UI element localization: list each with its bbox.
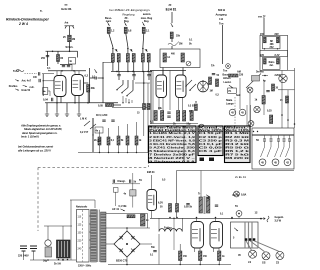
svg-text:dann Spannungsangaben m.: dann Spannungsangaben m.: [22, 131, 58, 135]
ground G2: [55, 112, 59, 116]
wire sw d2: [125, 98, 127, 103]
wire below IF 1: [118, 71, 120, 74]
svg-text:Gegent.: Gegent.: [275, 216, 285, 219]
IF can outer 1: [260, 35, 288, 50]
node R: [128, 102, 129, 103]
pulley xcirc 3: [254, 106, 260, 112]
svg-text:Ant: Ant: [65, 22, 69, 25]
capacitor C10: [147, 75, 150, 76]
svg-text:50p: 50p: [187, 123, 192, 126]
wire L1 down2: [118, 62, 120, 71]
svg-text:Skala abgleichen mit dP HF/ZF,: Skala abgleichen mit dP HF/ZF,: [24, 127, 62, 131]
svg-text:C2 100 p: C2 100 p: [199, 135, 223, 139]
wire v1 pin b: [60, 71, 62, 76]
out tr winding b: [248, 222, 250, 247]
resistor R8: [98, 137, 101, 145]
wire after r7: [114, 104, 122, 106]
svg-text:0,8A: 0,8A: [241, 193, 246, 196]
svg-text:m.E.: m.E.: [30, 87, 35, 89]
switch arm S1b: [122, 88, 128, 93]
out terminal sq 3: [253, 238, 256, 241]
tube V3: [156, 75, 167, 98]
coil L1b: [117, 54, 120, 63]
wire v4 down a: [178, 98, 180, 111]
output choke block: [57, 240, 71, 258]
svg-text:2x EL 41: 2x EL 41: [235, 175, 246, 179]
wire box to tube2: [182, 68, 184, 76]
interstage transformer: [199, 196, 210, 214]
capacitor C17: [113, 180, 114, 183]
capacitor C21: [186, 204, 189, 205]
wire bridge left: [106, 243, 114, 245]
wire x103 vert: [102, 62, 104, 103]
wire input low v: [49, 91, 51, 96]
node IF1a: [112, 48, 114, 50]
svg-text:R7 5 kΩ: R7 5 kΩ: [225, 153, 249, 157]
pulley circle 2: [248, 121, 254, 127]
resistor R14: [209, 77, 212, 85]
node Z: [202, 80, 204, 82]
bottom bus wire: [108, 264, 231, 266]
component box W1: [69, 58, 76, 65]
svg-text:2 EF41 ZF-Verst. 1,9: 2 EF41 ZF-Verst. 1,9: [149, 135, 196, 139]
resistor R33: [272, 84, 275, 91]
wire mr v3: [294, 68, 296, 128]
wire v1 down b: [60, 97, 62, 104]
svg-text:0,05: 0,05: [98, 104, 103, 107]
wire stub down3: [77, 51, 79, 57]
wire h input bus: [46, 50, 78, 52]
svg-text:Drehko: Drehko: [9, 85, 18, 88]
switch arm S3b: [190, 84, 196, 90]
arrow rect: [120, 209, 125, 211]
svg-text:50n: 50n: [151, 247, 156, 249]
wire L1 up: [112, 47, 114, 54]
tap 240: [89, 247, 91, 249]
IF can outer 2: [260, 57, 288, 71]
node Q: [122, 102, 123, 103]
node tone: [132, 192, 134, 194]
wire gnd stub4: [78, 103, 80, 112]
tap 125: [89, 223, 91, 225]
svg-text:250: 250: [41, 57, 46, 60]
wire bridge top: [126, 228, 128, 231]
wire mr down1: [246, 105, 248, 126]
wire v6 top: [196, 218, 198, 222]
wire r10 up: [118, 126, 120, 136]
switch arm S2a: [84, 121, 90, 126]
svg-text:4 EL41 Endröhre 5,8: 4 EL41 Endröhre 5,8: [149, 142, 195, 146]
svg-text:1M: 1M: [210, 91, 213, 93]
wire mr v1: [281, 83, 283, 128]
node V: [118, 152, 119, 153]
wire r9 dn: [108, 145, 110, 153]
out terminal sq 1: [245, 238, 248, 241]
node can1 a: [264, 48, 265, 49]
squiggle row1: [16, 70, 24, 72]
wire r11 dn: [127, 145, 129, 153]
tube V2 (ECH81 hexode): [72, 75, 84, 96]
connector jack J1 pin: [227, 65, 229, 67]
wire left low h: [44, 225, 72, 227]
coil L3a: [141, 54, 144, 63]
switch arm S2b: [90, 124, 96, 129]
wire v4 top: [182, 71, 184, 76]
coil L2b: [132, 54, 135, 63]
svg-text:Höhen: Höhen: [223, 77, 231, 80]
wire rect h2: [106, 227, 150, 229]
shield box U1: [160, 49, 200, 68]
node B: [69, 51, 71, 53]
wire ech col3: [171, 46, 173, 49]
node in1: [43, 80, 44, 81]
test arrow TP6: [206, 195, 210, 197]
svg-text:det.: det.: [269, 64, 273, 67]
wire v6 down a: [194, 248, 196, 252]
node lb c: [196, 217, 198, 219]
wire can2 corner: [288, 70, 295, 72]
node rect a: [126, 227, 128, 229]
dial box: [252, 76, 260, 82]
test arrow TP1: [107, 22, 109, 26]
svg-text:autom.: autom.: [143, 13, 152, 16]
potentiometer P1: [168, 42, 179, 46]
node N: [142, 71, 144, 73]
choke terminal dots: [58, 259, 60, 261]
connector jack J2 pin: [201, 126, 203, 128]
svg-text:Feldsp.: Feldsp.: [164, 226, 173, 229]
wire r28 up: [179, 244, 181, 251]
lower box left: [176, 171, 178, 218]
wire v2 pin b: [78, 71, 80, 75]
resistor R30: [218, 251, 221, 261]
lamp circle 3: [259, 159, 266, 166]
node bus end: [260, 218, 262, 220]
node Y: [92, 134, 93, 135]
squiggle out: [267, 216, 269, 222]
node A: [52, 51, 54, 53]
antenna symbol: [65, 26, 75, 29]
node IF2b: [131, 49, 132, 50]
speaker jack X3: [276, 251, 284, 259]
lamp circle 5: [284, 159, 291, 166]
svg-text:2 W 4: 2 W 4: [18, 22, 28, 26]
fuse circle: [234, 191, 240, 197]
wire lower v1: [92, 118, 94, 152]
connector jack J2: [199, 124, 205, 130]
test arrow TP5: [171, 23, 173, 27]
trimmer circle: [186, 61, 191, 66]
svg-text:0,2 4Y7: 0,2 4Y7: [80, 131, 89, 134]
resistor R26: [169, 204, 172, 213]
svg-text:4 Ω: 4 Ω: [219, 18, 223, 21]
dial cord vert: [234, 97, 236, 126]
node can1 b: [277, 48, 278, 49]
switch arm S1c: [127, 91, 133, 96]
svg-text:0,1: 0,1: [47, 67, 51, 70]
svg-text:Ton: Ton: [219, 22, 224, 25]
wire term2 dn: [33, 252, 35, 261]
wire mid tube bus: [150, 70, 186, 72]
wire below IF 3b: [148, 76, 150, 80]
svg-text:0,3 50: 0,3 50: [188, 106, 195, 108]
wire bottom left h: [30, 259, 76, 261]
svg-text:Ant. 4n7: Ant. 4n7: [22, 80, 32, 83]
wire box to tube1: [162, 68, 164, 76]
svg-text:GS: GS: [262, 262, 266, 265]
capacitor C11: [95, 77, 96, 80]
tuning indicator spokes: [200, 81, 206, 92]
svg-text:B250 C75: B250 C75: [116, 259, 128, 262]
wire v3 down a: [158, 98, 160, 111]
svg-text:C4 0,1 μF: C4 0,1 μF: [199, 142, 223, 146]
transformer winding 1: [91, 210, 97, 263]
wire below IF 1b: [118, 76, 120, 80]
capacitor C5: [62, 66, 65, 67]
svg-text:R8 220 Ω: R8 220 Ω: [225, 156, 249, 160]
wire r11 up: [127, 124, 129, 136]
capacitor C14: [97, 140, 100, 141]
node mrv2: [287, 119, 289, 121]
wire mr v7: [249, 93, 251, 121]
field coil L10: [159, 229, 182, 232]
wire L2 down2: [133, 62, 135, 71]
component mr2: [264, 75, 266, 77]
svg-text:EL 41: EL 41: [233, 194, 240, 197]
wire int top: [200, 171, 202, 198]
trimmer box divider: [252, 134, 294, 136]
node M: [132, 71, 134, 73]
svg-text:ZS: ZS: [276, 261, 279, 264]
wire lower bus: [150, 217, 261, 219]
ground G4: [77, 112, 81, 116]
wire x148 ext: [147, 108, 149, 153]
node D: [73, 70, 75, 72]
wire input mid: [43, 80, 54, 82]
node IF3b: [146, 49, 147, 50]
wire cap link: [60, 64, 72, 66]
capacitor C22: [215, 205, 218, 206]
wire mains left v: [70, 200, 72, 260]
wire mr h1: [278, 89, 295, 91]
svg-text:0,05 5k: 0,05 5k: [184, 206, 193, 209]
svg-text:Regelung: Regelung: [123, 13, 135, 17]
node G: [87, 102, 89, 104]
resistor R32: [147, 104, 150, 110]
wire rect h1: [106, 213, 148, 215]
resistor R22: [262, 96, 265, 105]
trimmer arm: [187, 62, 190, 65]
wire low bus: [45, 102, 118, 104]
transformer winding 2: [101, 212, 107, 262]
node lb f: [231, 218, 233, 220]
wire between tubes: [169, 71, 171, 111]
node E: [56, 102, 58, 104]
wire v1 down a: [56, 97, 58, 104]
wire col93: [92, 118, 94, 152]
IF can box 1: [263, 36, 281, 49]
node S: [143, 82, 145, 84]
connector jack J1: [226, 64, 231, 69]
arrow mr: [229, 85, 233, 88]
wire sw v1: [122, 80, 124, 85]
wire r29 dn: [199, 261, 201, 265]
wire can link: [259, 50, 261, 56]
capacitor C18: [130, 180, 131, 183]
wire x143 vert: [143, 71, 145, 107]
wire cap c11b: [98, 77, 104, 79]
choke gaps: [59, 241, 68, 257]
coil L6: [264, 37, 267, 43]
terminal stack 2: [30, 246, 37, 251]
resistor R7: [106, 104, 114, 107]
component box mrL: [228, 88, 237, 93]
component box K2: [113, 188, 118, 193]
svg-text:Dr 5H: Dr 5H: [54, 263, 61, 266]
trimmer box: [252, 128, 294, 169]
svg-text:AM: AM: [237, 70, 241, 73]
svg-text:0,04: 0,04: [43, 99, 48, 102]
trimmer T5: [286, 136, 292, 158]
table2 foot mark b: [209, 158, 214, 162]
wire IF bottom bus: [111, 70, 152, 72]
capacitor C15: [212, 74, 215, 75]
IF can box 2: [263, 58, 281, 70]
svg-text:Lampe: Lampe: [226, 102, 234, 105]
test arrow TP3: [142, 22, 144, 26]
bus end arrow: [261, 218, 265, 220]
component box K1: [95, 127, 103, 133]
resistor R5: [124, 27, 127, 33]
wire r12 dn: [136, 145, 138, 153]
svg-text:9 Sicherung 0,8 A: 9 Sicherung 0,8 A: [149, 160, 195, 164]
svg-text:7 Drehko 2x500 pF: 7 Drehko 2x500 pF: [149, 153, 195, 157]
capacitor C19: [266, 91, 269, 92]
svg-text:C3 250 p: C3 250 p: [199, 138, 223, 142]
out tr winding a: [244, 222, 246, 247]
component table 3: [225, 126, 251, 163]
wire tp3 down: [142, 33, 145, 47]
svg-text:R4 2 kΩ: R4 2 kΩ: [225, 142, 249, 146]
test arrow TPc3: [145, 49, 148, 51]
capacitor C9: [132, 75, 135, 76]
svg-text:30k: 30k: [91, 87, 96, 90]
wire mr v6: [239, 78, 241, 109]
coil L3b: [147, 54, 150, 63]
resistor R15: [216, 79, 219, 87]
tap 150: [89, 231, 91, 233]
wire out v3: [254, 241, 279, 251]
node IF1b: [116, 49, 117, 50]
svg-text:R2 30 kΩ: R2 30 kΩ: [225, 135, 249, 139]
wire x1438 ext: [143, 108, 145, 137]
svg-text:EcH 81: EcH 81: [61, 7, 72, 11]
wire x174 dn: [173, 218, 175, 250]
wire r30 dn: [218, 261, 220, 265]
resistor R13: [170, 32, 173, 39]
wire sw v3: [132, 80, 134, 91]
svg-text:von ZF: von ZF: [258, 16, 266, 18]
svg-text:220V~ 50Hz: 220V~ 50Hz: [78, 265, 92, 268]
node K: [116, 71, 118, 73]
capacitor C2: [39, 72, 40, 75]
wire mid bus2: [150, 123, 198, 125]
node U: [108, 152, 109, 153]
wire choke up: [62, 226, 64, 240]
tube V6 (EL41): [191, 222, 204, 249]
capacitor C16b: [167, 116, 170, 117]
out tr arrow: [234, 228, 238, 231]
wire out vert: [222, 25, 224, 64]
table2 foot mark a: [200, 158, 205, 162]
wire mr v4: [263, 80, 265, 96]
wire v7 top: [215, 218, 217, 222]
wire L3 up: [142, 47, 144, 54]
wire v3 down b: [162, 98, 164, 111]
trimmer T3: [275, 136, 281, 158]
svg-text:6 Skalenlampen 6,3: 6 Skalenlampen 6,3: [149, 149, 196, 153]
capacitor C3: [39, 79, 40, 82]
wire cap c11: [90, 77, 95, 79]
svg-text:Reg.: Reg.: [144, 20, 150, 23]
test arrow TPc2: [130, 49, 133, 51]
wire r8 dn: [99, 145, 101, 153]
wire tp1 down: [109, 33, 113, 47]
resistor R17: [161, 111, 164, 121]
wire r12 up: [136, 122, 138, 136]
svg-text:150: 150: [260, 33, 265, 36]
wire tube top bus: [48, 70, 86, 72]
svg-text:Ausgang: Ausgang: [216, 13, 228, 17]
transformer inner dash: [82, 210, 84, 262]
node mr a: [253, 131, 254, 132]
capacitor C6: [67, 66, 70, 67]
component box W2: [43, 88, 48, 95]
out tr winding c: [251, 222, 253, 247]
resistor R2: [57, 55, 60, 62]
capacitor C1: [46, 56, 49, 57]
wire v2 down b: [78, 96, 80, 104]
svg-text:600 Ω: 600 Ω: [218, 8, 225, 12]
node mrv3: [294, 123, 296, 125]
resistor R28: [179, 251, 182, 261]
wire mains drop: [94, 200, 96, 208]
transformer primary box: [77, 210, 90, 263]
svg-text:0,1 50k: 0,1 50k: [119, 205, 128, 208]
arrow row3: [23, 85, 27, 87]
resistor R23: [270, 115, 273, 124]
wire sw d3: [128, 99, 130, 103]
wire v3 top: [162, 71, 164, 76]
node lb e: [231, 217, 233, 219]
wire gnd stub1: [46, 103, 48, 112]
svg-text:bei 468kHz-ZF-Eingangssign.: bei 468kHz-ZF-Eingangssign.: [109, 8, 150, 12]
wire gnd stub3: [66, 103, 68, 112]
component table 1: [149, 126, 197, 164]
tube V1 (ECH81 triode): [54, 76, 66, 97]
wire sw v2: [127, 80, 129, 88]
node L: [127, 71, 129, 73]
svg-text:R1 1 MΩ: R1 1 MΩ: [225, 131, 249, 135]
svg-text:L M K: L M K: [80, 118, 87, 121]
node IF3a: [142, 48, 144, 50]
svg-text:30 0,1 200: 30 0,1 200: [96, 114, 108, 117]
tube V4: [176, 75, 187, 98]
wire gnd stub2: [56, 103, 58, 112]
svg-text:Alle Empfangsbereiche genau n.: Alle Empfangsbereiche genau n.: [20, 124, 61, 128]
wire sw d1: [122, 96, 124, 103]
wire lower bus: [78, 152, 150, 154]
